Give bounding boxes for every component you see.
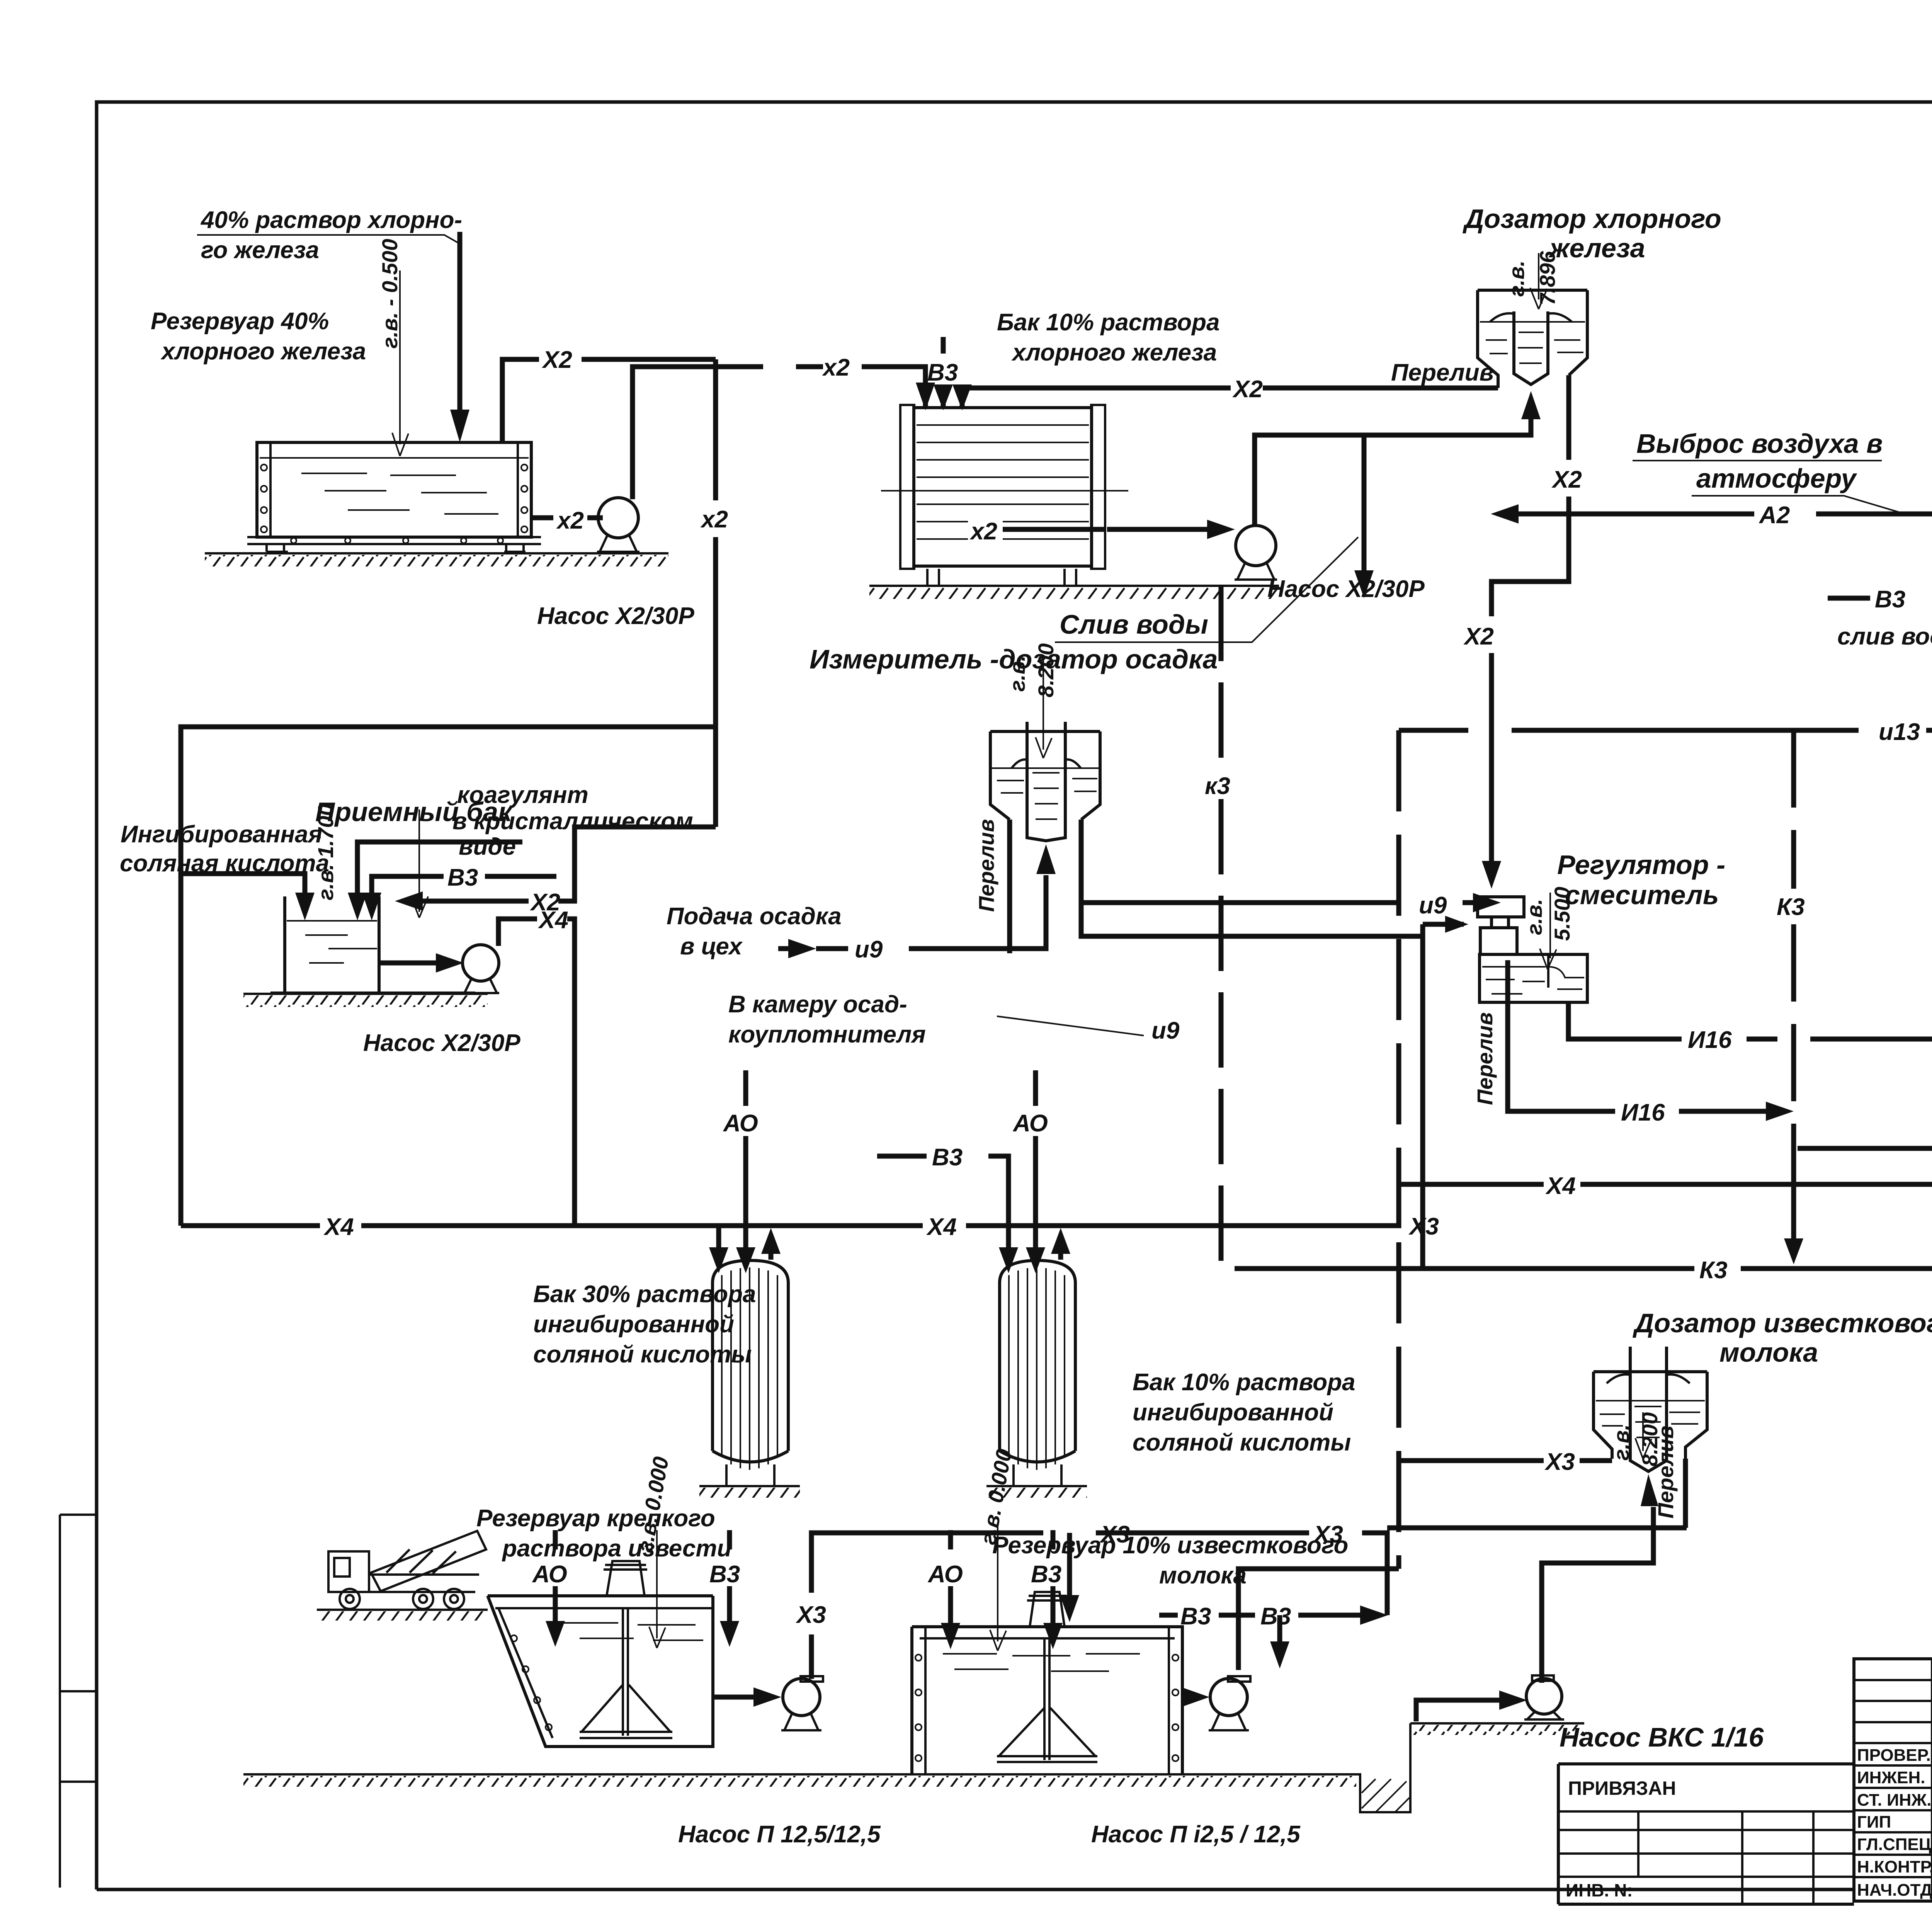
- svg-text:раствора извести: раствора извести: [502, 1535, 731, 1562]
- svg-text:железа: железа: [1548, 233, 1645, 263]
- svg-text:Насос Х2/30Р: Насос Х2/30Р: [1267, 576, 1425, 602]
- svg-text:Х2: Х2: [542, 347, 572, 373]
- perelliv izmeritel: [1007, 820, 1012, 953]
- svg-text:Насос П i2,5 / 12,5: Насос П i2,5 / 12,5: [1091, 1821, 1301, 1848]
- svg-text:Х4: Х4: [538, 907, 568, 934]
- X4 collector under filter and up-arrow: [1798, 1146, 1932, 1151]
- X4 trunk: [181, 1155, 1932, 1226]
- X2 down from dozator1 to regulator: [1492, 375, 1569, 862]
- svg-text:Насос Х2/30Р: Насос Х2/30Р: [537, 603, 694, 629]
- svg-text:Дозатор хлорного: Дозатор хлорного: [1463, 204, 1721, 234]
- svg-text:В3: В3: [927, 359, 958, 386]
- B3 stub above tank2: [941, 337, 946, 408]
- I13 trunk at y=1890: [1569, 728, 1932, 733]
- svg-text:В3: В3: [1260, 1603, 1291, 1630]
- tank A 30%: [713, 1260, 788, 1462]
- left margin strip: [60, 1515, 97, 1888]
- svg-text:ингибированной: ингибированной: [1133, 1399, 1333, 1426]
- svg-text:Перелив: Перелив: [1473, 1012, 1497, 1105]
- svg-text:И16: И16: [1621, 1099, 1665, 1126]
- svg-text:молока: молока: [1159, 1562, 1247, 1589]
- X3 vertical long: [1396, 730, 1401, 1569]
- svg-text:Резервуар 10% известкового: Резервуар 10% известкового: [992, 1532, 1348, 1559]
- svg-text:Х3: Х3: [1099, 1521, 1130, 1548]
- pump3: [381, 961, 437, 966]
- svg-text:В3: В3: [1031, 1561, 1061, 1588]
- svg-text:х2: х2: [969, 518, 997, 545]
- regulator perelliv I16 #2: [1508, 960, 1766, 1111]
- svg-text:Насос ВКС 1/16: Насос ВКС 1/16: [1560, 1722, 1764, 1752]
- tank body: [257, 442, 531, 537]
- koagulyant feed: [357, 842, 522, 896]
- K3 vertical from sliv trunk y=1890: [1399, 728, 1569, 733]
- svg-text:Х4: Х4: [1545, 1173, 1576, 1199]
- svg-text:г.в.: г.в.: [1522, 899, 1546, 935]
- svg-text:хлорного железа: хлорного железа: [1011, 339, 1217, 366]
- B3 into pump: [1828, 596, 1932, 601]
- pump X2/30R #1: [531, 367, 763, 629]
- privyazan block: [1558, 1764, 1854, 1904]
- svg-text:НАЧ.ОТД.: НАЧ.ОТД.: [1857, 1881, 1932, 1900]
- svg-text:виде: виде: [459, 833, 516, 860]
- regulator bottom outlet I16 #1: [1568, 1002, 1932, 1039]
- X3 to dozator2: [1399, 1458, 1612, 1463]
- svg-text:АО: АО: [927, 1561, 963, 1588]
- svg-text:в цех: в цех: [680, 933, 743, 960]
- svg-text:Х3: Х3: [1313, 1521, 1343, 1548]
- svg-text:В3: В3: [709, 1561, 740, 1588]
- svg-text:Перелив: Перелив: [1391, 359, 1494, 386]
- svg-text:В3: В3: [1180, 1603, 1211, 1630]
- svg-text:хлорного железа: хлорного железа: [160, 338, 366, 365]
- svg-text:атмосферу: атмосферу: [1696, 463, 1857, 493]
- vessel: [1478, 290, 1587, 388]
- svg-text:Х2: Х2: [1463, 623, 1494, 650]
- svg-text:и9: и9: [1419, 892, 1447, 919]
- mixer2: [997, 1638, 1097, 1762]
- feeds above trapezoid: [553, 1530, 558, 1621]
- svg-text:соляной кислоты: соляной кислоты: [1133, 1429, 1351, 1456]
- svg-text:соляная кислота: соляная кислота: [120, 850, 329, 877]
- svg-text:х2: х2: [556, 507, 584, 534]
- cylinder tank body: [914, 408, 1092, 566]
- acid branch from trunk: [181, 727, 716, 1226]
- svg-text:ИНЖЕН.: ИНЖЕН.: [1857, 1768, 1925, 1787]
- signature table: [1854, 1659, 1932, 1901]
- svg-text:ингибированной: ингибированной: [533, 1311, 734, 1338]
- svg-text:Х3: Х3: [1408, 1213, 1439, 1240]
- arrows: [716, 1228, 721, 1248]
- I9 to regulator: [1081, 820, 1473, 936]
- svg-text:соляной кислоты: соляной кислоты: [533, 1341, 752, 1368]
- svg-text:5.500: 5.500: [1550, 887, 1574, 941]
- svg-text:Х2: Х2: [1232, 376, 1263, 403]
- X2 line from tank1 top: [502, 359, 716, 442]
- svg-text:и13: и13: [1879, 719, 1920, 745]
- svg-text:И16: И16: [1688, 1027, 1732, 1053]
- B3 stub: [372, 876, 556, 896]
- svg-text:ГИП: ГИП: [1857, 1813, 1891, 1832]
- svg-text:В3: В3: [1875, 586, 1905, 613]
- svg-text:и9: и9: [855, 936, 883, 963]
- svg-text:Насос Х2/30Р: Насос Х2/30Р: [363, 1030, 520, 1056]
- svg-text:ГЛ.СПЕЦ.: ГЛ.СПЕЦ.: [1857, 1835, 1932, 1854]
- svg-text:Бак 10% раствора: Бак 10% раствора: [997, 309, 1219, 336]
- I16 feed into regulator neck from left vertical: [1423, 924, 1464, 1269]
- central cylinder: [1514, 311, 1548, 384]
- svg-text:коуплотнителя: коуплотнителя: [728, 1021, 926, 1048]
- svg-text:А2: А2: [1759, 502, 1790, 529]
- svg-text:смеситель: смеситель: [1565, 880, 1719, 910]
- svg-text:Х4: Х4: [926, 1214, 957, 1240]
- X2 into priyomny bak: [419, 827, 716, 901]
- pump P1: [713, 1695, 753, 1700]
- pump2 (lime) to X3 vertical: [1238, 1569, 1399, 1670]
- svg-text:Х2: Х2: [1551, 466, 1582, 493]
- svg-text:К3: К3: [1699, 1257, 1728, 1284]
- A2 to atmosphere: [1519, 514, 1932, 555]
- svg-text:к3: к3: [1205, 773, 1230, 799]
- center feed arrow from VKS: [1542, 1507, 1653, 1683]
- svg-text:Насос П 12,5/12,5: Насос П 12,5/12,5: [678, 1821, 881, 1848]
- ground under tank1: [205, 552, 668, 554]
- svg-text:Ингибированная: Ингибированная: [121, 821, 322, 848]
- perelliv line from dozator1 with X2 label and arrow into tank2: [962, 388, 1498, 408]
- trapezoid tank: [488, 1596, 713, 1747]
- svg-text:молока: молока: [1719, 1337, 1818, 1367]
- B3 line at right of tank2 + perelliv from dozator2: [1159, 1613, 1360, 1618]
- feeds above rezervuar2: [948, 1530, 953, 1623]
- tank B 10%: [1000, 1260, 1075, 1462]
- svg-text:Н.КОНТР.: Н.КОНТР.: [1857, 1857, 1932, 1876]
- svg-text:г.в. - 0.500: г.в. - 0.500: [378, 239, 402, 349]
- svg-text:г.в. 1.700: г.в. 1.700: [313, 804, 338, 900]
- svg-text:В камеру осад-: В камеру осад-: [728, 991, 907, 1018]
- svg-text:х2: х2: [822, 354, 850, 381]
- X4 from pump3 discharge: [498, 919, 575, 1226]
- ground main bottom: [243, 1723, 1584, 1812]
- svg-text:Резервуар крепкого: Резервуар крепкого: [476, 1505, 715, 1532]
- perelliv down: [1683, 1459, 1688, 1528]
- feed arrow: [457, 232, 463, 410]
- svg-text:Х3: Х3: [1544, 1449, 1575, 1475]
- svg-text:Бак 30% раствора: Бак 30% раствора: [533, 1281, 756, 1308]
- pump2 discharge to dozator1 center: [1255, 402, 1531, 526]
- pump P2: [1182, 1695, 1182, 1700]
- tank: [270, 896, 475, 993]
- svg-text:В3: В3: [447, 864, 478, 891]
- pump2 suction: [969, 527, 1207, 532]
- sliv vody #1 arrow: [1362, 435, 1367, 572]
- svg-text:40% раствор хлорно-: 40% раствор хлорно-: [200, 207, 462, 233]
- svg-text:коагулянт: коагулянт: [457, 782, 588, 808]
- svg-text:и9: и9: [1151, 1017, 1180, 1044]
- svg-text:Слив воды: Слив воды: [1060, 609, 1208, 639]
- svg-text:ПРИВЯЗАН: ПРИВЯЗАН: [1568, 1777, 1676, 1799]
- svg-text:АО: АО: [532, 1561, 567, 1588]
- svg-text:СТ. ИНЖ.: СТ. ИНЖ.: [1857, 1791, 1931, 1810]
- svg-text:в кристаллическом: в кристаллическом: [452, 808, 693, 835]
- pump2: [1236, 526, 1276, 566]
- svg-text:АО: АО: [1012, 1110, 1048, 1137]
- svg-text:Регулятор -: Регулятор -: [1557, 850, 1725, 880]
- svg-text:АО: АО: [723, 1110, 758, 1137]
- svg-text:Перелив: Перелив: [974, 819, 998, 912]
- truck: [328, 1531, 486, 1609]
- svg-text:х2: х2: [700, 506, 728, 533]
- svg-text:В3: В3: [932, 1144, 963, 1171]
- svg-text:ПРОВЕР.: ПРОВЕР.: [1857, 1746, 1931, 1765]
- rezervuar 2 (10% lime): [912, 1627, 1182, 1774]
- svg-text:Дозатор известкового: Дозатор известкового: [1633, 1308, 1932, 1338]
- svg-text:Подача осадка: Подача осадка: [667, 903, 842, 930]
- X3 feed down from trunk to dozator2 area with label: [1238, 1566, 1399, 1571]
- vertical trunk x=1852: [713, 359, 718, 827]
- svg-text:Х4: Х4: [323, 1214, 354, 1240]
- K3 trunk: [1235, 1266, 1932, 1271]
- svg-text:го железа: го железа: [201, 237, 319, 264]
- mixer: [580, 1608, 672, 1738]
- svg-text:8.200: 8.200: [1034, 643, 1058, 697]
- K3 vertical west (from pump2 area): [1219, 586, 1224, 1269]
- svg-text:Резервуар 40%: Резервуар 40%: [151, 308, 329, 335]
- svg-text:г.в.: г.в.: [1005, 655, 1029, 692]
- svg-text:слив воды: слив воды: [1837, 623, 1932, 650]
- svg-text:Выброс воздуха в: Выброс воздуха в: [1636, 429, 1883, 459]
- svg-text:К3: К3: [1777, 894, 1805, 920]
- pump1 discharge line to tank2, crossing trunk: [796, 367, 925, 408]
- svg-text:Бак 10% раствора: Бак 10% раствора: [1133, 1369, 1355, 1396]
- svg-text:ИНВ. N:: ИНВ. N:: [1566, 1880, 1633, 1900]
